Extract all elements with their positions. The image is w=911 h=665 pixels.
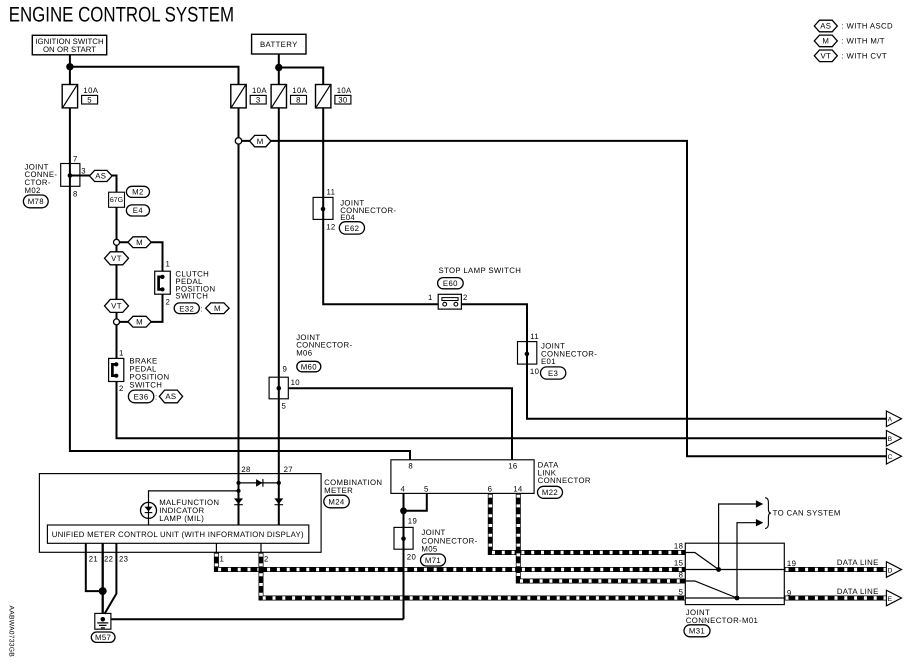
svg-text:M57: M57 [95, 633, 111, 642]
svg-text:UNIFIED METER CONTROL UNIT (WI: UNIFIED METER CONTROL UNIT (WITH INFORMA… [52, 530, 304, 539]
svg-text:19: 19 [408, 516, 417, 525]
legend tag M hexagon [814, 35, 837, 47]
diode on pin27 wire [274, 498, 283, 504]
joint connector M06 [269, 377, 288, 399]
wire: ignition switch feed down to fuse 5 [69, 55, 71, 85]
connector oval E60 [438, 278, 464, 289]
svg-text:M05: M05 [421, 545, 438, 554]
svg-text:VT: VT [820, 52, 831, 61]
label malfunction indicator lamp [159, 498, 219, 523]
svg-text:22: 22 [104, 554, 113, 563]
arrow to CAN system upper [756, 500, 763, 507]
svg-text:19: 19 [787, 559, 796, 568]
svg-text::: : [200, 304, 203, 313]
tag VT hexagon lower [105, 299, 129, 312]
svg-text:BATTERY: BATTERY [260, 40, 298, 49]
fuse 10A 8 [271, 85, 308, 108]
arrow E [886, 590, 901, 606]
node: open junction clutch top [114, 239, 120, 245]
joint connector M02 [61, 164, 80, 187]
svg-text:7: 7 [73, 155, 78, 164]
wire: meter pin 27 internal [278, 474, 280, 525]
svg-text:C: C [888, 454, 893, 461]
svg-text:ENGINE CONTROL SYSTEM: ENGINE CONTROL SYSTEM [9, 4, 234, 27]
label combination meter [324, 478, 382, 495]
svg-text:METER: METER [324, 486, 353, 495]
svg-text:2: 2 [119, 384, 124, 393]
svg-text:1: 1 [219, 554, 224, 563]
node: open junction clutch bottom [114, 319, 120, 325]
svg-text:18: 18 [674, 542, 683, 551]
svg-text:M06: M06 [296, 349, 312, 358]
svg-text:21: 21 [89, 554, 98, 563]
svg-text:10A: 10A [337, 86, 352, 95]
combination meter box [39, 474, 321, 553]
wire: MIL branch [149, 491, 239, 525]
svg-text:8: 8 [679, 571, 684, 580]
junction node DLC pin4/pin5 [400, 507, 407, 514]
wire: fuse 3 down to combination meter pin 28 [238, 108, 240, 474]
svg-text:LAMP (MIL): LAMP (MIL) [159, 514, 204, 523]
tag M hexagon beside E32 [206, 303, 229, 314]
splice 67G box [109, 192, 125, 207]
connector oval M78 [23, 195, 48, 208]
wire: M01 tap to CAN system lower [737, 523, 757, 598]
connector oval M71 [421, 554, 446, 566]
arrow C [886, 448, 901, 464]
legend tag AS hexagon [814, 20, 837, 32]
diode on pin28 wire [234, 498, 243, 504]
svg-text:E60: E60 [443, 279, 458, 288]
label data link connector [538, 461, 591, 486]
tag AS hexagon beside E36 [159, 390, 182, 403]
legend tag VT hexagon [814, 50, 837, 62]
connector oval M31 [684, 625, 710, 637]
svg-text:E01: E01 [541, 357, 556, 366]
svg-text:M31: M31 [689, 627, 705, 636]
svg-text:M71: M71 [425, 556, 441, 565]
joint connector M01 box [685, 543, 784, 604]
connector oval M60 [297, 361, 321, 372]
svg-text:E32: E32 [179, 304, 194, 313]
diode between pin28 and pin27 [256, 479, 263, 487]
svg-text:M: M [136, 238, 143, 247]
label joint connector E04 [340, 199, 396, 222]
wire: DLC pin5 jog to pin4 wire [404, 493, 427, 510]
svg-text:STOP LAMP SWITCH: STOP LAMP SWITCH [439, 266, 522, 275]
svg-text:5: 5 [424, 484, 429, 493]
connector oval M24 [324, 495, 350, 508]
wire: shielded data line M01 pin19 to arrow D [784, 567, 886, 572]
wire: meter pin 22 to ground M57 [102, 543, 104, 613]
wire: M06 pin10 branch to DLC pin 16 [288, 388, 512, 460]
svg-text:27: 27 [284, 465, 293, 474]
svg-text:M22: M22 [542, 488, 558, 497]
svg-text:A: A [888, 417, 893, 424]
svg-text:AS: AS [820, 22, 831, 31]
brace to CAN system [765, 498, 771, 529]
wire: ground bus from M57 to M05 pin20 [111, 618, 404, 620]
svg-text:M: M [136, 317, 143, 326]
joint connector E01 [518, 342, 537, 365]
clutch pedal position switch [155, 271, 171, 294]
junction node ground wires [99, 587, 107, 595]
svg-text:15: 15 [674, 558, 684, 567]
unified meter control unit box [47, 525, 308, 543]
svg-text:8: 8 [408, 461, 413, 470]
ground symbol M57 [95, 613, 111, 629]
svg-text:B: B [888, 436, 893, 443]
svg-text:10A: 10A [292, 86, 307, 95]
wire: meter pin 28 internal [238, 474, 240, 525]
wire: M01 internal bus pin5 to pin9 [685, 597, 784, 599]
wire: M01 internal bus pin15 to pin19 [685, 569, 784, 571]
svg-text:AABWA0733GB: AABWA0733GB [8, 606, 15, 658]
wire: shielded data line DLC pin6 to M01 pin18 [490, 493, 685, 552]
svg-text:2: 2 [264, 554, 269, 563]
svg-text:6: 6 [488, 484, 493, 493]
junction node meter pin28 top [236, 481, 240, 485]
svg-text:E4: E4 [133, 206, 144, 215]
junction node battery feed [275, 64, 282, 71]
arrow to CAN system lower [756, 519, 763, 526]
tag M hexagon clutch bottom [128, 316, 151, 327]
tag M hexagon clutch top [128, 237, 151, 248]
svg-text:ON OR START: ON OR START [43, 45, 96, 54]
svg-text:11: 11 [530, 332, 539, 341]
fuse 10A 30 [316, 85, 353, 108]
svg-text:12: 12 [326, 222, 335, 231]
svg-text:10: 10 [530, 367, 540, 376]
svg-text:14: 14 [513, 484, 523, 493]
connector oval E3 [541, 367, 566, 379]
arrow B [886, 431, 901, 447]
svg-text:DATA LINE: DATA LINE [837, 558, 879, 567]
wire: clutch pedal position switch loop [117, 242, 163, 322]
svg-text:2: 2 [463, 293, 468, 302]
svg-text:: WITH CVT: : WITH CVT [842, 52, 888, 61]
svg-text:SWITCH: SWITCH [175, 292, 208, 301]
svg-text:5: 5 [281, 401, 286, 410]
svg-text:16: 16 [508, 461, 517, 470]
ignition switch box [32, 35, 106, 55]
svg-text:SWITCH: SWITCH [129, 381, 162, 390]
wire: fuse 8 down through joint connector M06 to combination meter pin 27 [278, 108, 280, 474]
label brake pedal position switch [129, 356, 169, 389]
svg-text:VT: VT [111, 254, 122, 263]
svg-text:D: D [888, 567, 893, 574]
svg-text:M60: M60 [301, 362, 318, 371]
svg-text:5: 5 [679, 588, 684, 597]
svg-text:2: 2 [165, 297, 170, 306]
svg-text:30: 30 [338, 95, 348, 104]
label joint connector M05 [421, 528, 477, 554]
svg-text:AS: AS [165, 392, 176, 401]
svg-text:VT: VT [111, 302, 122, 311]
svg-text:M02: M02 [25, 186, 41, 195]
svg-text:9: 9 [787, 588, 792, 597]
wire: shielded data line UMCU pin1 to M01 pin15 (CAN-H) [216, 552, 685, 569]
svg-text:23: 23 [119, 554, 128, 563]
brake pedal position switch [109, 358, 124, 381]
stop lamp switch [438, 294, 461, 309]
svg-text:10A: 10A [83, 86, 98, 95]
connector oval M22 [538, 486, 563, 498]
svg-text:TO CAN SYSTEM: TO CAN SYSTEM [773, 509, 841, 518]
wire: M02 pin3 branch through AS tag and 67G down to clutch/brake circuit, to arrow B [70, 176, 887, 439]
svg-text:M78: M78 [28, 197, 44, 206]
svg-text:5: 5 [87, 95, 92, 104]
malfunction indicator lamp MIL symbol [141, 502, 157, 518]
wire: meter pin 21 to ground node [86, 543, 103, 591]
connector oval M2 [126, 186, 149, 197]
svg-text:10A: 10A [252, 86, 267, 95]
tag M hexagon on M/T branch [250, 135, 271, 146]
svg-text:8: 8 [73, 190, 78, 199]
svg-text:M2: M2 [132, 187, 144, 196]
wire: internal link between pin28 and pin27 nodes [239, 482, 279, 484]
svg-text:1: 1 [119, 348, 124, 357]
node: open option junction on fuse3 line [235, 138, 241, 144]
joint connector M05 [394, 527, 413, 549]
connector oval E32 [174, 303, 199, 314]
svg-text:: WITH M/T: : WITH M/T [842, 37, 885, 46]
wire: fuse 5 through joint connector M02 down and right to DLC pin 8 [70, 108, 410, 460]
wire: battery branch right to fuse 30 [279, 68, 323, 85]
junction node MIL branch [236, 489, 240, 493]
fuse 10A 5 [62, 85, 99, 108]
svg-text:1: 1 [428, 293, 433, 302]
connector oval E4 [126, 205, 149, 216]
svg-text:1: 1 [165, 259, 170, 268]
wire: M01 internal pin8 diagonal [685, 581, 737, 598]
label joint connector M06 [296, 333, 352, 358]
wire: M/T branch line from node to arrow C [239, 141, 887, 456]
svg-text:3: 3 [81, 167, 86, 176]
wire: M01 tap to CAN system upper [719, 504, 757, 570]
connector oval E36 [128, 390, 153, 403]
svg-text:E04: E04 [340, 213, 355, 222]
svg-text:67G: 67G [110, 197, 123, 204]
wire: shielded data line DLC pin14 to M01 pin8 [518, 493, 685, 581]
label clutch pedal position switch [175, 270, 215, 301]
svg-text:M24: M24 [328, 497, 345, 506]
svg-text::: : [155, 393, 158, 402]
junction node ignition feed [66, 63, 73, 70]
svg-text:4: 4 [401, 484, 406, 493]
svg-text:E: E [888, 596, 893, 603]
svg-text:28: 28 [241, 465, 250, 474]
svg-text:3: 3 [256, 95, 261, 104]
battery box [252, 34, 306, 54]
svg-text:CONNECTOR-M01: CONNECTOR-M01 [686, 616, 758, 625]
fuse 10A 3 [231, 85, 268, 108]
svg-text:8: 8 [296, 95, 301, 104]
wire: battery feed down to fuse 8 [278, 54, 280, 85]
connector oval E62 [339, 222, 364, 234]
connector oval M57 [91, 632, 115, 642]
svg-text:E62: E62 [344, 224, 359, 233]
tag AS hexagon at M02 pin3 [90, 170, 113, 181]
svg-text:M: M [822, 37, 829, 46]
wire: UMCU pin1 stub [215, 543, 217, 552]
wire: shielded data line UMCU pin2 to M01 pin5 (CAN-L) [261, 552, 685, 598]
wire: UMCU pin2 stub [260, 543, 262, 552]
wire: DLC pin4 down through M05 to ground line [403, 493, 405, 619]
svg-text:9: 9 [282, 365, 287, 374]
junction node M01 CAN-H [716, 567, 721, 572]
label joint connector E01 [541, 342, 597, 367]
label joint connector M02 [25, 162, 58, 194]
svg-text:AS: AS [95, 172, 106, 181]
tag VT hexagon upper [105, 252, 129, 265]
junction node meter pin27 top [277, 481, 281, 485]
wire: meter pin 23 diagonal to ground M57 [105, 543, 117, 614]
arrow A [886, 411, 901, 427]
wire: M01 internal pin18 diagonal [685, 553, 718, 570]
svg-text:E36: E36 [134, 393, 149, 402]
svg-text:: WITH ASCD: : WITH ASCD [842, 22, 894, 31]
svg-text:DATA LINE: DATA LINE [837, 587, 879, 596]
wire: fuse 30 down to stop lamp switch, then to joint connector E01 and arrow A [323, 108, 886, 419]
data link connector box [391, 460, 534, 494]
svg-text:M: M [257, 137, 264, 146]
svg-text:10: 10 [291, 378, 301, 387]
junction node M01 CAN-L [735, 596, 740, 601]
svg-text:11: 11 [327, 187, 336, 196]
svg-text:M: M [214, 304, 221, 313]
wire: ignition feed branch right to fuse 3 [70, 67, 239, 85]
svg-text:CONNECTOR: CONNECTOR [538, 476, 591, 485]
wire: shielded data line M01 pin9 to arrow E [784, 596, 886, 601]
arrow D [886, 562, 901, 578]
joint connector E04 [313, 197, 333, 219]
label joint connector M01 [686, 608, 758, 625]
svg-text:20: 20 [407, 553, 417, 562]
svg-text:E3: E3 [548, 369, 558, 378]
